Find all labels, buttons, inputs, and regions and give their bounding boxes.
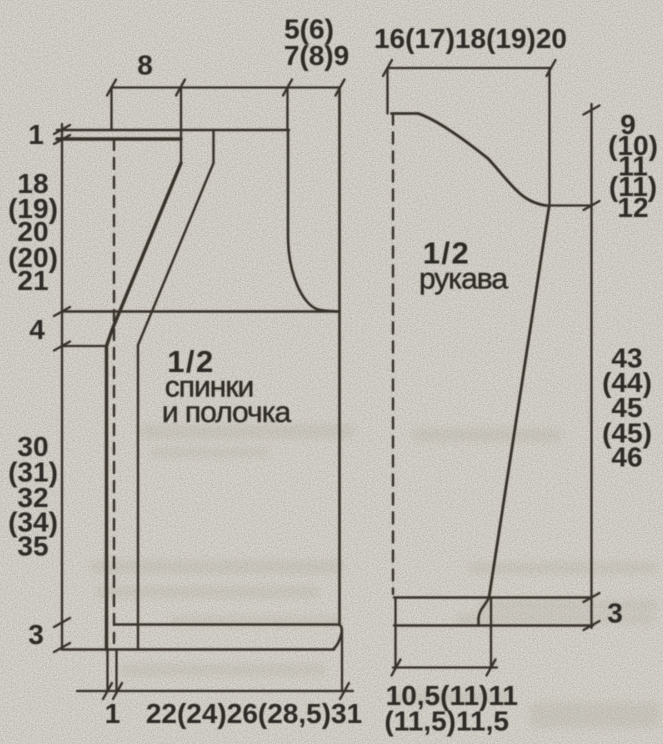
left dimension line — [61, 124, 63, 648]
inner raglan line — [138, 130, 214, 649]
cuff right curve — [479, 598, 490, 626]
svg-text:1: 1 — [28, 119, 44, 150]
extension line — [394, 598, 396, 668]
svg-text:22(24)26(28,5)31: 22(24)26(28,5)31 — [146, 698, 362, 729]
band top line — [116, 625, 342, 650]
outer raglan edge — [107, 163, 182, 650]
svg-text:16(17)18(19)20: 16(17)18(19)20 — [374, 23, 567, 54]
svg-text:12: 12 — [617, 192, 648, 223]
tick — [584, 621, 600, 630]
tick — [584, 593, 600, 602]
sleeve cap top — [392, 112, 419, 115]
top dimension line (8 / 7(8)9) — [112, 86, 341, 88]
cuff top line — [394, 596, 592, 598]
band bottom line — [62, 648, 334, 651]
extension line — [341, 630, 343, 691]
tick — [487, 660, 496, 676]
extension line — [386, 68, 388, 114]
sleeve cap curve — [418, 114, 546, 206]
extension line — [106, 650, 108, 691]
svg-text:8: 8 — [137, 50, 153, 81]
bottom dimension line — [77, 690, 353, 692]
svg-text:(11,5)11,5: (11,5)11,5 — [384, 706, 509, 737]
sleeve underarm slant — [489, 207, 549, 598]
svg-text:и полочка: и полочка — [162, 396, 292, 429]
tick — [176, 80, 185, 96]
tick — [54, 135, 70, 144]
front neck curve — [288, 130, 340, 312]
svg-text:35: 35 — [17, 531, 48, 562]
svg-text:21: 21 — [17, 265, 48, 296]
svg-text:3: 3 — [607, 598, 623, 629]
sleeve top dimension line — [388, 67, 552, 69]
tick — [547, 60, 556, 76]
sleeve fold dashed line — [392, 114, 394, 595]
tick — [340, 683, 349, 699]
armhole line — [62, 310, 340, 313]
tick — [584, 201, 600, 210]
cuff bottom line — [394, 624, 593, 626]
extension line — [286, 88, 288, 131]
tick — [54, 618, 70, 627]
tick — [103, 683, 112, 699]
shoulder line thick — [57, 137, 181, 140]
cap bottom extension — [546, 204, 592, 206]
svg-text:46: 46 — [611, 442, 642, 473]
fold dashed line — [113, 139, 115, 643]
show-through smudges — [90, 424, 660, 728]
tick — [383, 60, 392, 76]
tick — [54, 342, 70, 351]
tick — [392, 660, 401, 676]
right dimension line — [590, 104, 592, 628]
extension line — [180, 88, 182, 164]
extension line — [115, 650, 117, 691]
tick — [54, 307, 70, 316]
svg-text:4: 4 — [29, 314, 45, 345]
right edge / extension — [338, 88, 341, 625]
svg-text:3: 3 — [28, 619, 44, 650]
tick — [113, 683, 122, 699]
extension line — [490, 599, 492, 668]
svg-text:7(8)9: 7(8)9 — [284, 40, 349, 71]
svg-text:рукава: рукава — [419, 263, 508, 296]
extension line — [110, 88, 112, 131]
tick — [283, 80, 292, 96]
sleeve bottom dimension line — [393, 666, 497, 668]
tick — [107, 80, 116, 96]
extension line — [548, 68, 550, 206]
all drawn lines — [54, 60, 600, 699]
short line at 4 — [62, 345, 107, 347]
tick — [54, 125, 70, 134]
svg-text:1: 1 — [105, 698, 121, 729]
top neck line — [57, 129, 289, 132]
tick — [584, 106, 600, 115]
tick — [54, 643, 70, 652]
tick — [336, 80, 345, 96]
